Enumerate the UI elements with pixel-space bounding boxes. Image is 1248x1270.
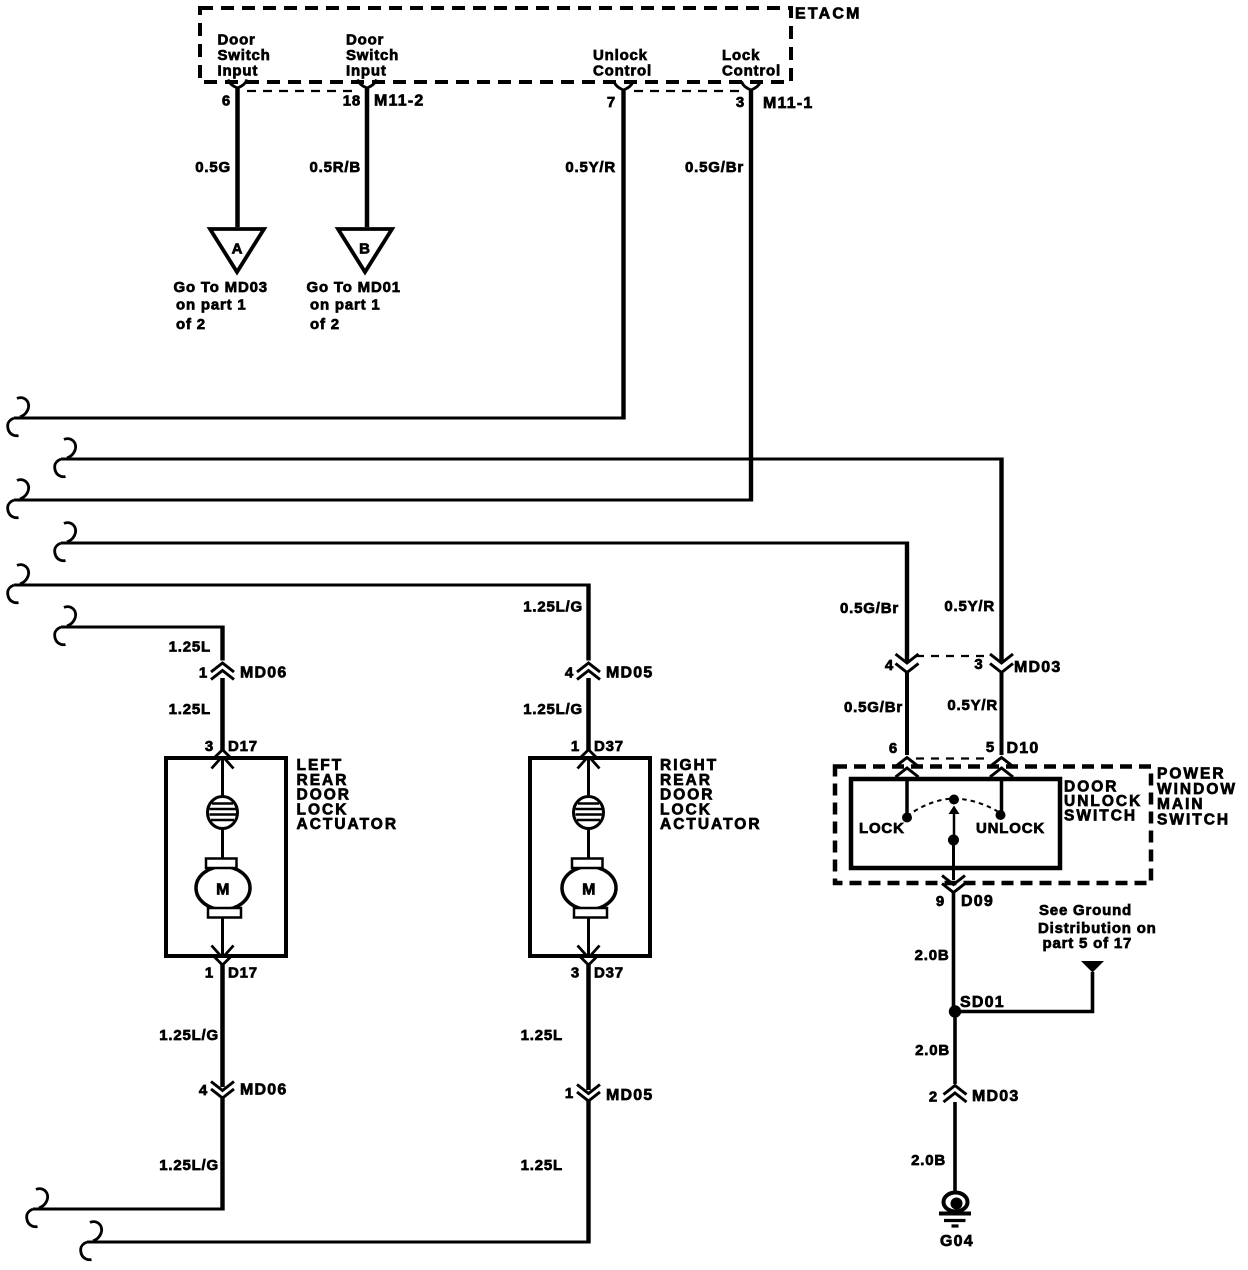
svg-text:1.25L: 1.25L <box>521 1027 563 1044</box>
wire 1.25L from off-page hook to MD06 pin 1 <box>61 626 224 661</box>
pin 18 terminal (female funnel) and connector name M11-2 <box>343 80 425 110</box>
svg-text:1: 1 <box>571 738 580 755</box>
svg-text:18: 18 <box>343 93 361 110</box>
svg-text:D09: D09 <box>961 893 994 910</box>
svg-text:4: 4 <box>565 665 574 682</box>
wire 2.0B from D09 pin 9 to SD01 splice <box>915 893 954 1012</box>
svg-text:1.25L/G: 1.25L/G <box>523 599 583 616</box>
motor M of left actuator <box>196 859 250 918</box>
svg-text:3: 3 <box>974 656 983 673</box>
movable contact arrowhead <box>949 806 960 815</box>
in-line connector MD03 pin 3 (double chevron down) and name <box>974 654 1061 676</box>
off-page hook for 1.25L wire to MD06 pin 1 <box>55 607 76 645</box>
svg-text:9: 9 <box>936 893 945 910</box>
svg-text:MD05: MD05 <box>606 1087 653 1104</box>
svg-text:of 2: of 2 <box>176 316 206 333</box>
svg-text:0.5G/Br: 0.5G/Br <box>685 159 744 176</box>
pin function label: Unlock Control (pin 7) <box>593 47 652 79</box>
left rear door lock actuator box <box>166 758 286 956</box>
wire 1.25L/G from MD05 pin 4 to D37 pin 1 <box>523 678 588 750</box>
wire inside right actuator (bottom) <box>587 917 590 956</box>
svg-text:MD06: MD06 <box>240 665 287 682</box>
off-page hook for left 1.25L/G wire <box>27 1189 48 1227</box>
wire 1.25L from MD06 pin 1 to D17 pin 3 <box>169 678 223 750</box>
svg-text:2.0B: 2.0B <box>915 947 950 964</box>
svg-text:1: 1 <box>205 965 214 982</box>
POWER WINDOW MAIN SWITCH dashed box <box>835 767 1151 884</box>
wire from D10 pin 6 to LOCK contact <box>905 777 909 814</box>
in-line connector MD05 pin 1 (double chevron down) <box>565 1085 654 1105</box>
svg-text:D37: D37 <box>594 965 624 982</box>
ground distribution triangle connector <box>1081 961 1104 973</box>
SECTION: left actuator chain <box>27 663 398 1227</box>
connector D09 pin 9 (double chevron down) <box>936 876 994 911</box>
svg-text:5: 5 <box>986 739 995 756</box>
svg-text:D10: D10 <box>1007 740 1040 757</box>
switch common pivot dot (top) <box>949 795 959 805</box>
splice SD01 <box>949 994 1005 1018</box>
off-page hook for 0.5G/Br wire to MD03 pin 4 <box>55 523 76 561</box>
svg-text:4: 4 <box>199 1082 208 1099</box>
SECTION: power window switch chain <box>835 598 1237 1250</box>
wire 0.5Y/R from MD03 pin 3 to D10 pin 5 <box>947 673 1001 756</box>
wire 2.0B from SD01 to MD03 pin 2 <box>915 1012 955 1085</box>
ground symbol G04 <box>939 1193 974 1251</box>
svg-text:part 5 of 17: part 5 of 17 <box>1043 935 1133 952</box>
svg-text:UNLOCK: UNLOCK <box>976 820 1045 837</box>
SECTION: middle wires and hooks <box>8 398 1003 661</box>
pin function label: Door Switch Input (pin 6) <box>218 32 271 80</box>
wire inside right actuator (top) <box>587 758 590 797</box>
svg-text:See Ground: See Ground <box>1039 902 1132 919</box>
in-line connector MD05 pin 4 (double chevron up) <box>565 663 654 682</box>
label DOOR UNLOCK SWITCH <box>1064 779 1142 825</box>
svg-text:of 2: of 2 <box>310 316 340 333</box>
svg-text:M: M <box>216 882 230 899</box>
svg-text:MD03: MD03 <box>1014 659 1061 676</box>
switch common node dot (lower) <box>948 835 959 846</box>
svg-text:MD05: MD05 <box>606 665 653 682</box>
svg-text:Input: Input <box>346 62 387 79</box>
svg-text:MD06: MD06 <box>240 1082 287 1099</box>
svg-text:1: 1 <box>565 1085 574 1102</box>
off-page connector B (triangle) <box>338 229 392 272</box>
svg-text:2.0B: 2.0B <box>911 1152 946 1169</box>
off-page hook for 1.25L/G wire to MD05 pin 4 <box>8 565 29 603</box>
wire inside left actuator (coil to motor) <box>221 828 224 860</box>
svg-text:D17: D17 <box>228 965 258 982</box>
wire 1.25L from D37 pin 3 to MD05 pin 1 <box>521 965 589 1090</box>
connector D37 pin 1 entry terminal on actuator box <box>571 738 624 769</box>
svg-text:Input: Input <box>218 62 259 79</box>
svg-text:0.5G: 0.5G <box>195 159 231 176</box>
wire 0.5G from pin 6 to connector A <box>195 88 237 227</box>
svg-text:D17: D17 <box>228 738 258 755</box>
off-page hook for 0.5Y/R wire to MD03 pin 3 <box>55 439 76 477</box>
motor M of right actuator <box>562 859 616 918</box>
svg-text:6: 6 <box>889 740 898 757</box>
svg-text:SWITCH: SWITCH <box>1064 808 1137 825</box>
svg-text:Go To MD01: Go To MD01 <box>307 279 401 296</box>
off-page hook for 0.5Y/R wire (pin 7) <box>8 398 29 436</box>
actuator stem of switch <box>953 813 956 838</box>
in-line connector MD03 pin 2 (double chevron up) <box>929 1086 1020 1106</box>
svg-text:ACTUATOR: ACTUATOR <box>660 816 762 833</box>
svg-text:0.5G/Br: 0.5G/Br <box>840 600 899 617</box>
off-page connector A (triangle) <box>210 229 264 272</box>
svg-text:ACTUATOR: ACTUATOR <box>297 816 399 833</box>
svg-text:3: 3 <box>571 965 580 982</box>
svg-text:3: 3 <box>205 738 214 755</box>
connector D17 pin 1 exit terminal on actuator box <box>205 946 258 982</box>
label LEFT REAR DOOR LOCK ACTUATOR <box>297 757 399 833</box>
svg-text:2.0B: 2.0B <box>915 1042 950 1059</box>
svg-text:A: A <box>232 241 244 258</box>
wire 0.5G/Br from off-page hook to MD03 pin 4 <box>61 542 909 662</box>
off-page hook for 0.5G/Br wire (pin 3) <box>8 480 29 518</box>
svg-text:M: M <box>582 882 596 899</box>
svg-text:B: B <box>359 241 371 258</box>
UNLOCK contact dot <box>976 810 1045 837</box>
connector D37 pin 3 exit terminal on actuator box <box>571 946 624 982</box>
svg-text:1.25L: 1.25L <box>169 639 211 656</box>
wire from switch common down to D09 pin 9 <box>952 840 955 880</box>
wire 0.5R/B from pin 18 to connector B <box>310 88 368 227</box>
connector D17 pin 3 entry terminal on actuator box <box>205 738 258 769</box>
svg-text:SD01: SD01 <box>960 994 1005 1011</box>
pin 7 terminal (female funnel) <box>607 82 633 112</box>
pin function label: Lock Control (pin 3) <box>722 47 781 79</box>
svg-text:D37: D37 <box>594 738 624 755</box>
ETACM module dashed box <box>200 8 791 82</box>
in-line connector MD06 pin 4 (double chevron down) <box>199 1082 288 1100</box>
svg-text:SWITCH: SWITCH <box>1157 811 1230 828</box>
svg-text:Control: Control <box>593 62 652 79</box>
svg-text:M11-2: M11-2 <box>374 93 424 110</box>
svg-text:6: 6 <box>222 93 231 110</box>
svg-text:1.25L/G: 1.25L/G <box>523 701 583 718</box>
pin 6 terminal (female funnel) <box>222 80 247 110</box>
svg-text:ETACM: ETACM <box>795 6 862 23</box>
connector M11-2 dashed indicator line <box>247 90 357 92</box>
svg-text:0.5Y/R: 0.5Y/R <box>947 697 998 714</box>
SECTION: top ETACM module <box>14 6 862 502</box>
label RIGHT REAR DOOR LOCK ACTUATOR <box>660 757 762 833</box>
wire label 0.5Y/R above MD03 pin 3 <box>944 598 995 615</box>
dashed connector line between D10 pins 6 and 5 <box>916 757 988 759</box>
wire 1.25L from MD05 pin 1 to off-page hook <box>87 1101 590 1244</box>
ETACM label <box>795 6 862 23</box>
note: Go To MD03 on part 1 of 2 <box>174 279 268 333</box>
svg-text:M11-1: M11-1 <box>763 95 813 112</box>
coil of right actuator <box>574 797 604 829</box>
dashed connector line between MD03 pins 4 and 3 <box>916 655 988 657</box>
svg-text:2: 2 <box>929 1089 938 1106</box>
wire from D10 pin 5 to UNLOCK contact <box>1000 777 1004 812</box>
svg-text:MD03: MD03 <box>972 1088 1019 1105</box>
wire inside left actuator (top) <box>221 758 224 797</box>
connector M11-1 dashed indicator line <box>634 90 741 92</box>
svg-text:Control: Control <box>722 62 781 79</box>
svg-text:1.25L: 1.25L <box>521 1157 563 1174</box>
wire inside left actuator (bottom) <box>221 917 224 956</box>
coil of left actuator <box>208 797 238 829</box>
svg-text:0.5G/Br: 0.5G/Br <box>844 699 903 716</box>
svg-text:on part 1: on part 1 <box>310 297 381 314</box>
svg-text:1.25L: 1.25L <box>169 701 211 718</box>
svg-text:Go To MD03: Go To MD03 <box>174 279 268 296</box>
LOCK contact dot <box>859 813 912 838</box>
note: See Ground Distribution on part 5 of 17 <box>1038 902 1157 952</box>
svg-text:0.5Y/R: 0.5Y/R <box>565 159 616 176</box>
in-line connector MD03 pin 4 (double chevron down) <box>885 654 919 674</box>
ground distribution branch wire from SD01 <box>955 972 1093 1012</box>
wire 1.25L/G from off-page hook to MD05 pin 4 <box>14 584 590 661</box>
svg-text:4: 4 <box>885 657 894 674</box>
svg-text:1: 1 <box>199 665 208 682</box>
svg-text:0.5R/B: 0.5R/B <box>310 159 362 176</box>
wire 1.25L/G from D17 pin 1 to MD06 pin 4 <box>159 965 222 1087</box>
label POWER WINDOW MAIN SWITCH <box>1157 766 1237 829</box>
wire 1.25L/G from MD06 pin 4 to off-page hook <box>33 1098 224 1211</box>
svg-text:G04: G04 <box>940 1233 974 1250</box>
off-page hook for right 1.25L wire <box>81 1222 102 1260</box>
svg-text:on part 1: on part 1 <box>176 297 247 314</box>
svg-text:3: 3 <box>736 94 745 111</box>
switch throw dashed arc between LOCK and UNLOCK <box>907 799 1000 817</box>
svg-text:0.5Y/R: 0.5Y/R <box>944 598 995 615</box>
svg-text:LOCK: LOCK <box>859 820 905 837</box>
wire 0.5Y/R from pin 7 down and left to off-page hook <box>14 90 625 420</box>
wire 0.5G/Br from MD03 pin 4 to D10 pin 6 <box>844 673 907 756</box>
wire label 0.5G/Br above MD03 pin 4 <box>840 600 899 617</box>
SECTION: right actuator chain <box>81 663 762 1260</box>
pin 3 terminal (female funnel) and connector name M11-1 <box>736 82 814 113</box>
in-line connector MD06 pin 1 (double chevron up) <box>199 663 288 682</box>
wire 0.5Y/R from off-page hook to MD03 pin 3 <box>61 458 1003 662</box>
wire 2.0B from MD03 pin 2 to ground G04 <box>911 1102 955 1192</box>
connector D10 pin 5 (double chevron up) and name D10 <box>986 739 1040 777</box>
connector D10 pin 6 (double chevron up) <box>889 740 919 777</box>
wire 0.5G/Br from pin 3 down and left to off-page hook <box>14 90 753 502</box>
DOOR UNLOCK SWITCH solid box <box>851 779 1060 868</box>
svg-text:1.25L/G: 1.25L/G <box>159 1157 219 1174</box>
svg-text:1.25L/G: 1.25L/G <box>159 1027 219 1044</box>
wire inside right actuator (coil to motor) <box>587 828 590 860</box>
note: Go To MD01 on part 1 of 2 <box>307 279 401 333</box>
pin function label: Door Switch Input (pin 18) <box>346 32 399 80</box>
svg-text:7: 7 <box>607 94 616 111</box>
right rear door lock actuator box <box>530 758 650 956</box>
